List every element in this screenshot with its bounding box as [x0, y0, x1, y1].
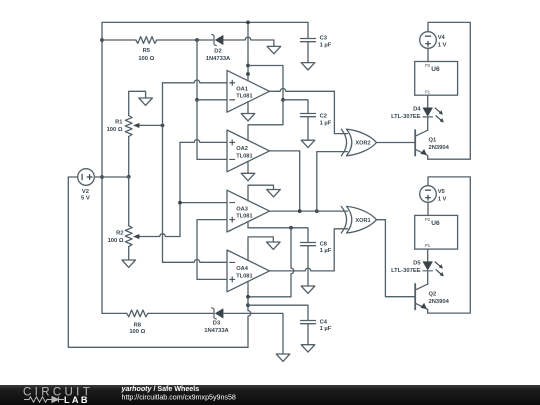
svg-text:V2: V2	[82, 189, 89, 195]
ground under OA1	[241, 114, 255, 121]
svg-text:Q2: Q2	[429, 292, 437, 298]
ground under C2	[301, 140, 315, 147]
svg-text:1 V: 1 V	[438, 42, 447, 48]
resistor R8	[102, 312, 127, 314]
capacitor C4	[301, 320, 316, 322]
node junction rail x=248	[246, 21, 250, 25]
svg-text:1 V: 1 V	[438, 196, 447, 202]
ground under C8	[301, 286, 315, 293]
ground under C3	[301, 63, 315, 70]
wire D5 to Q2 collector	[427, 271, 429, 284]
xor gate XOR2	[347, 129, 377, 156]
wire net B x=180 (R2 wiper to OA2+/OA3-)	[179, 142, 181, 236]
svg-text:TL081: TL081	[236, 273, 252, 279]
svg-text:R2: R2	[116, 230, 123, 236]
svg-text:P1: P1	[425, 243, 431, 248]
ground under OA2	[241, 173, 255, 180]
transistor Q1 2N3904	[414, 130, 416, 156]
wire XOR2 output to Q1 base	[377, 142, 416, 144]
op-amp OA1 TL081	[227, 70, 270, 112]
svg-text:OA3: OA3	[236, 206, 248, 212]
svg-text:5 V: 5 V	[81, 196, 90, 202]
wire left rail x=102 (V2+ to R5/R8)	[101, 22, 103, 313]
svg-text:OA4: OA4	[236, 266, 249, 272]
LED D5 LTL-307EE	[423, 262, 432, 270]
wire OA2+ input (hops net C)	[180, 140, 227, 143]
wire C2 top	[283, 100, 308, 114]
voltage source V2 5V	[68, 176, 77, 178]
wire OA1- input	[197, 99, 227, 101]
svg-text:OA1: OA1	[236, 87, 248, 93]
svg-text:100 Ω: 100 Ω	[129, 329, 145, 335]
node junction R1 wiper	[161, 124, 165, 128]
svg-text:XOR1: XOR1	[355, 218, 370, 224]
resistor R5	[102, 39, 136, 41]
resistor R1 (pot)	[125, 116, 132, 137]
wire R1 wiper	[139, 124, 163, 126]
wire XOR2 lower input	[317, 152, 348, 212]
svg-text:1N4733A: 1N4733A	[206, 56, 231, 62]
svg-text:2N3904: 2N3904	[429, 299, 450, 305]
svg-text:V5: V5	[438, 189, 446, 195]
svg-text:100 Ω: 100 Ω	[107, 127, 123, 133]
svg-text:LTL-307EE: LTL-307EE	[391, 268, 421, 274]
svg-text:P1: P1	[425, 89, 431, 94]
block U6 (upper)	[415, 62, 458, 96]
svg-text:P2: P2	[425, 217, 431, 222]
svg-text:D4: D4	[413, 107, 421, 113]
node junction R5 right / D2	[195, 38, 199, 42]
wire D4 to Q1 collector	[427, 117, 429, 130]
svg-text:D2: D2	[214, 49, 221, 55]
wire OA3 bottom pin to -V rail	[247, 222, 249, 228]
wire R1 bottom	[128, 137, 130, 178]
svg-text:TL081: TL081	[236, 94, 252, 100]
ground above OA3	[267, 190, 281, 197]
node junction C8 rail return	[246, 295, 250, 299]
wire U6 to D4	[427, 95, 429, 108]
wire V5 loop	[428, 177, 471, 313]
svg-text:OA2: OA2	[236, 146, 248, 152]
wire R1 top to ground	[129, 91, 146, 115]
wire C2 node to OA2 V+ pin	[248, 100, 283, 141]
ground after D3	[276, 354, 290, 361]
wire XOR1 output to Q2 base	[377, 220, 416, 297]
ground after D2	[267, 46, 281, 53]
diode D2 1N4733A	[212, 34, 217, 45]
svg-text:yarhooty / Safe Wheels: yarhooty / Safe Wheels	[121, 385, 200, 393]
ground under C4	[301, 345, 315, 352]
node junction C4 branch	[246, 303, 250, 307]
diode D3 1N4733A	[212, 308, 217, 319]
capacitor C3	[307, 22, 309, 38]
svg-text:C4: C4	[320, 319, 328, 325]
wire V4 loop	[428, 22, 471, 159]
ground above R1	[139, 98, 153, 105]
svg-text:100 Ω: 100 Ω	[138, 56, 154, 62]
wire OA1+ input (hops net C)	[163, 82, 169, 84]
svg-text:C8: C8	[320, 241, 328, 247]
wire R2 ground stem	[128, 247, 130, 260]
wire R2 top	[128, 177, 130, 226]
resistor R2 (pot)	[125, 226, 132, 247]
voltage source V5 1V	[420, 186, 437, 203]
wire OA4 V pin column	[248, 281, 251, 347]
node junction C8 branch	[289, 226, 293, 230]
transistor Q2 2N3904	[414, 284, 416, 310]
wire OA4 output to XOR1 (hops x291, C8 lead)	[270, 268, 335, 271]
svg-text:R1: R1	[115, 119, 123, 125]
wire R2 wiper (hops R1 net)	[139, 234, 180, 237]
wire OA3- input	[180, 202, 227, 204]
wire Q1 emitter	[427, 156, 429, 160]
wire D2 to ground (hops +V pin)	[223, 37, 274, 40]
ground under R2	[122, 260, 136, 267]
wire +V rail top	[102, 21, 308, 23]
xor gate XOR1	[347, 206, 377, 233]
svg-text:1 µF: 1 µF	[320, 326, 332, 332]
wire OA4- input (hops net C lower)	[163, 260, 228, 263]
wire OA1 V- to ground	[247, 102, 249, 114]
wire -V rail to C8	[248, 228, 308, 243]
wire U6 to D5	[427, 249, 429, 262]
wire OA2 V- to ground	[247, 161, 249, 173]
svg-text:Q1: Q1	[429, 138, 438, 144]
svg-text:V4: V4	[438, 35, 446, 41]
capacitor C2	[301, 113, 316, 115]
svg-text:R5: R5	[143, 48, 151, 54]
footer bar	[0, 385, 540, 405]
capacitor C8	[301, 242, 316, 244]
ground above OA4	[267, 242, 281, 249]
node pin dot	[246, 72, 250, 76]
node junction OA3-	[178, 201, 182, 205]
svg-text:P2: P2	[425, 63, 431, 68]
svg-text:LAB: LAB	[64, 395, 90, 405]
node junction R5 left	[100, 38, 104, 42]
wire V5 to U6	[427, 202, 429, 215]
block U6 (lower)	[415, 215, 458, 249]
wire OA3 top pin to ground	[248, 185, 274, 201]
node junction R1/R2/V2	[127, 175, 131, 179]
wire net A x=162.5 (R1 wiper to OA1+/OA4-)	[162, 83, 164, 262]
svg-text:LTL-307EE: LTL-307EE	[391, 114, 421, 120]
wire x=291 down (hops OA4 out)	[291, 228, 294, 297]
wire OA1 V+ pin column x=248	[247, 22, 249, 81]
wire D3 to ground	[223, 313, 283, 354]
wire V4 to U6	[427, 48, 429, 61]
svg-text:C2: C2	[320, 114, 327, 120]
wire OA3 output to XOR1	[270, 210, 348, 212]
svg-text:1N4733A: 1N4733A	[204, 328, 229, 334]
wire OA2 output	[270, 151, 300, 211]
wire OA1 output (hops V+ branch)	[270, 89, 335, 92]
node junction OA2 out tie	[298, 209, 302, 213]
wire net C lower x=197 (OA3+ to OA4+)	[197, 220, 227, 280]
svg-text:100 Ω: 100 Ω	[108, 238, 124, 244]
wire to C4	[248, 305, 308, 320]
svg-text:C3: C3	[320, 36, 328, 42]
svg-text:R8: R8	[134, 322, 142, 328]
svg-text:1 µF: 1 µF	[320, 248, 332, 254]
svg-text:XOR2: XOR2	[355, 141, 370, 147]
svg-text:D5: D5	[413, 261, 421, 267]
svg-text:1 µF: 1 µF	[320, 42, 332, 48]
LED D4 LTL-307EE	[423, 108, 432, 116]
svg-text:2N3904: 2N3904	[429, 145, 450, 151]
node junction OA1-	[195, 98, 199, 102]
svg-text:U6: U6	[431, 66, 440, 73]
wire V2 minus loop	[68, 177, 248, 347]
wire net C x=197 upper (D2 node to OA1-/OA2-)	[197, 40, 227, 159]
wire V+ branch to C2 node	[248, 66, 283, 100]
svg-text:D3: D3	[213, 321, 221, 327]
node junction XOR2 lower input tie	[315, 209, 319, 213]
svg-text:TL081: TL081	[236, 153, 252, 159]
wire Q2 emitter	[427, 309, 429, 313]
op-amp OA4 TL081	[227, 250, 270, 292]
node junction C2 branch	[281, 98, 285, 102]
voltage source V4 1V	[420, 32, 437, 49]
svg-text:U6: U6	[431, 220, 440, 227]
node junction V2+ rail	[100, 175, 104, 179]
node junction V+ branch	[246, 64, 250, 68]
op-amp OA3 TL081	[227, 190, 270, 232]
op-amp OA2 TL081	[227, 130, 270, 172]
svg-text:TL081: TL081	[236, 214, 252, 220]
wire OA4 top pin to ground	[248, 237, 273, 261]
svg-text:http://circuitlab.com/cx9mxp5y: http://circuitlab.com/cx9mxp5y9ns58	[122, 394, 236, 402]
svg-text:1 µF: 1 µF	[320, 120, 332, 126]
